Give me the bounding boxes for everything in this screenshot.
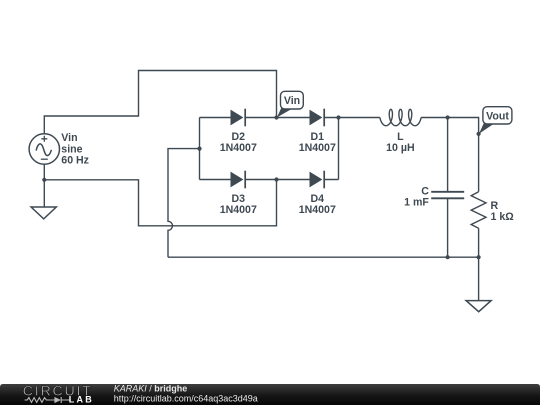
resistor R <box>471 192 486 228</box>
junction resistor bottom <box>477 255 481 259</box>
value label L 10 uH <box>386 131 414 154</box>
footer bar <box>0 384 540 405</box>
ground G2 <box>466 301 491 312</box>
wire left node to bottom rail with hop <box>168 149 200 258</box>
svg-text:http://circuitlab.com/c64aq3ac: http://circuitlab.com/c64aq3ac3d49a <box>114 394 258 404</box>
svg-text:Vout: Vout <box>486 111 509 123</box>
junction bridge bottom node <box>274 177 278 181</box>
wire resistor bottom to rail <box>478 228 480 257</box>
wire bridge top row <box>200 117 339 119</box>
wire rail to ground G2 <box>478 257 480 300</box>
svg-text:10 µH: 10 µH <box>386 142 414 154</box>
junction capacitor bottom <box>446 255 450 259</box>
svg-text:1N4007: 1N4007 <box>299 204 336 216</box>
junction capacitor top <box>446 115 450 119</box>
value label R 1 kOhm <box>491 200 515 223</box>
svg-text:60 Hz: 60 Hz <box>61 154 89 166</box>
diode D2 <box>231 109 246 127</box>
capacitor C <box>431 192 464 199</box>
junction node Vout <box>477 132 481 136</box>
svg-text:Vin: Vin <box>284 95 300 107</box>
wire source minus lead <box>43 164 45 180</box>
value label C 1 mF <box>404 186 429 209</box>
diode D4 <box>310 171 325 189</box>
wire bridge left vertical <box>199 118 201 180</box>
junction node Vin <box>274 115 278 119</box>
diode D3 <box>231 171 246 189</box>
value label V1: Vin sine 60 Hz <box>61 132 89 166</box>
svg-text:KARAKI / bridghe: KARAKI / bridghe <box>114 383 188 393</box>
ground G1 <box>31 207 56 219</box>
svg-text:1 mF: 1 mF <box>404 197 429 209</box>
wire bottom rail <box>168 256 479 258</box>
wire capacitor branch <box>447 118 449 258</box>
wire source plus to node Vin <box>44 71 276 135</box>
value label D4 1N4007 <box>299 193 336 216</box>
svg-text:1N4007: 1N4007 <box>220 204 257 216</box>
svg-text:1N4007: 1N4007 <box>220 142 257 154</box>
wire right node to inductor <box>339 117 380 119</box>
junction source minus <box>42 178 46 182</box>
junction bridge left node <box>197 147 201 151</box>
value label D2 1N4007 <box>220 131 257 154</box>
svg-text:1N4007: 1N4007 <box>299 142 336 154</box>
inductor L <box>380 109 421 125</box>
wire to ground G1 <box>43 180 45 207</box>
wire bridge right vertical <box>338 118 340 180</box>
wire source minus to bridge bottom node <box>44 180 276 226</box>
svg-text:1 kΩ: 1 kΩ <box>491 211 515 223</box>
wire inductor to resistor top <box>421 118 479 192</box>
voltage source V1 <box>29 134 59 164</box>
node label Vin <box>277 91 303 117</box>
wire bridge bottom row <box>200 179 339 181</box>
junction bridge right node <box>336 115 340 119</box>
logo schematic resistor <box>25 398 51 403</box>
value label D1 1N4007 <box>299 131 336 154</box>
value label D3 1N4007 <box>220 193 257 216</box>
node label Vout <box>479 107 512 134</box>
svg-text:LAB: LAB <box>69 395 94 405</box>
logo schematic diode <box>50 397 71 403</box>
diode D1 <box>310 109 325 127</box>
